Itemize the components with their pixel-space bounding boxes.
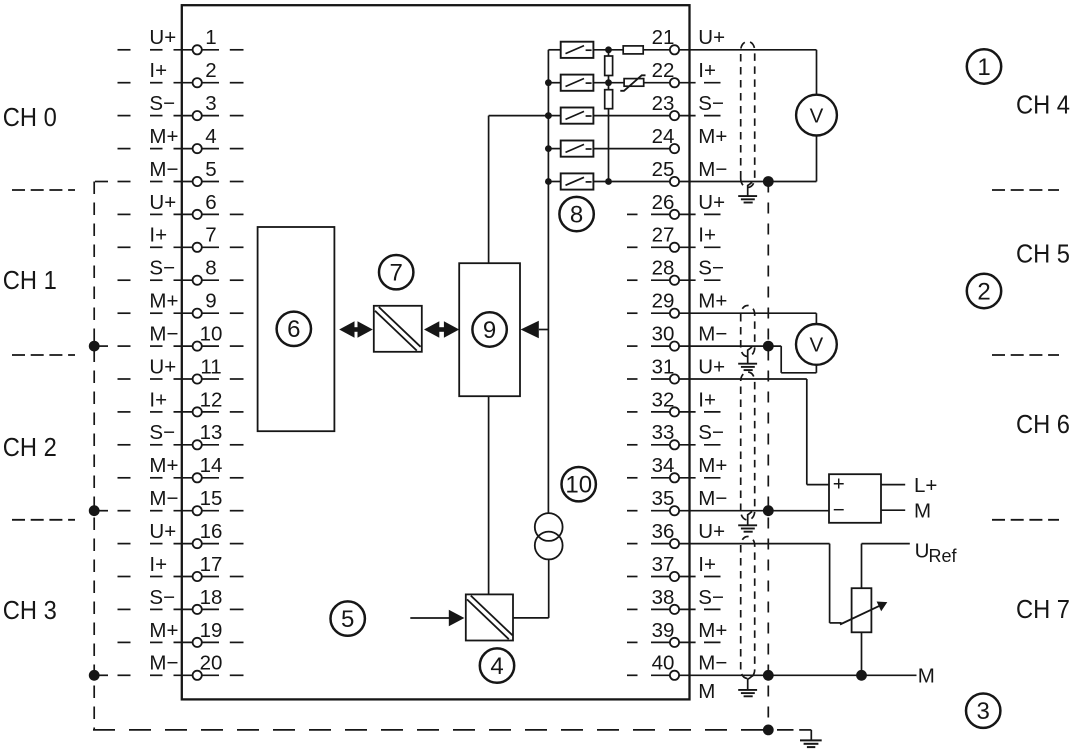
svg-text:14: 14 — [200, 454, 223, 477]
svg-text:M−: M− — [698, 652, 727, 675]
svg-text:36: 36 — [652, 520, 675, 543]
svg-text:6: 6 — [287, 316, 300, 343]
svg-text:7: 7 — [390, 260, 403, 287]
svg-text:S−: S− — [149, 92, 175, 115]
svg-text:10: 10 — [565, 472, 592, 499]
svg-text:5: 5 — [341, 606, 354, 633]
svg-text:M+: M+ — [698, 619, 727, 642]
svg-text:8: 8 — [205, 257, 216, 280]
svg-text:32: 32 — [652, 388, 675, 411]
svg-text:5: 5 — [205, 158, 216, 181]
svg-text:CH 2: CH 2 — [3, 432, 57, 462]
svg-text:27: 27 — [652, 224, 675, 247]
svg-text:CH 5: CH 5 — [1016, 239, 1070, 269]
svg-text:22: 22 — [652, 59, 675, 82]
svg-text:M−: M− — [698, 323, 727, 346]
svg-text:2: 2 — [977, 278, 990, 305]
svg-text:12: 12 — [200, 388, 223, 411]
svg-text:I+: I+ — [698, 224, 716, 247]
svg-text:6: 6 — [205, 191, 216, 214]
svg-text:U+: U+ — [149, 191, 176, 214]
svg-text:16: 16 — [200, 520, 223, 543]
svg-text:I+: I+ — [698, 59, 716, 82]
svg-text:M+: M+ — [698, 454, 727, 477]
svg-text:11: 11 — [200, 355, 221, 378]
svg-text:1: 1 — [977, 54, 990, 81]
svg-text:13: 13 — [200, 421, 223, 444]
svg-text:U: U — [915, 539, 930, 562]
svg-text:26: 26 — [652, 191, 675, 214]
svg-text:29: 29 — [652, 290, 675, 313]
svg-text:8: 8 — [570, 202, 583, 229]
svg-text:21: 21 — [652, 26, 675, 49]
svg-text:CH 0: CH 0 — [3, 102, 57, 132]
svg-text:15: 15 — [200, 487, 223, 510]
svg-text:M+: M+ — [698, 290, 727, 313]
svg-text:31: 31 — [652, 355, 675, 378]
svg-text:Ref: Ref — [929, 546, 958, 566]
svg-text:1: 1 — [205, 26, 216, 49]
svg-text:2: 2 — [205, 59, 216, 82]
svg-text:S−: S− — [149, 586, 175, 609]
svg-text:37: 37 — [652, 553, 675, 576]
svg-text:30: 30 — [652, 323, 675, 346]
svg-text:S−: S− — [698, 257, 724, 280]
svg-text:I+: I+ — [149, 553, 167, 576]
svg-text:4: 4 — [490, 653, 503, 680]
svg-text:M: M — [918, 665, 935, 688]
svg-text:M−: M− — [149, 323, 178, 346]
svg-text:M+: M+ — [149, 125, 178, 148]
svg-text:19: 19 — [200, 619, 223, 642]
svg-text:9: 9 — [205, 290, 216, 313]
svg-text:+: + — [833, 473, 845, 496]
svg-text:CH 4: CH 4 — [1016, 90, 1070, 120]
svg-text:I+: I+ — [149, 224, 167, 247]
svg-text:L+: L+ — [914, 474, 937, 497]
svg-text:V: V — [810, 104, 824, 127]
svg-text:7: 7 — [205, 224, 216, 247]
svg-text:17: 17 — [200, 553, 223, 576]
svg-text:U+: U+ — [698, 520, 725, 543]
svg-text:38: 38 — [652, 586, 675, 609]
svg-text:CH 3: CH 3 — [3, 595, 57, 625]
svg-text:34: 34 — [652, 454, 675, 477]
svg-text:CH 7: CH 7 — [1016, 594, 1070, 624]
svg-text:39: 39 — [652, 619, 675, 642]
svg-text:9: 9 — [483, 317, 496, 344]
svg-text:28: 28 — [652, 257, 675, 280]
svg-text:23: 23 — [652, 92, 675, 115]
svg-text:40: 40 — [652, 652, 675, 675]
svg-text:M: M — [698, 680, 715, 703]
svg-text:M−: M− — [149, 487, 178, 510]
svg-text:CH 6: CH 6 — [1016, 409, 1070, 439]
svg-text:M+: M+ — [149, 619, 178, 642]
svg-text:33: 33 — [652, 421, 675, 444]
svg-text:M−: M− — [149, 652, 178, 675]
svg-text:U+: U+ — [149, 26, 176, 49]
svg-text:S−: S− — [149, 421, 175, 444]
svg-text:18: 18 — [200, 586, 223, 609]
svg-text:S−: S− — [698, 586, 724, 609]
svg-text:S−: S− — [698, 421, 724, 444]
svg-text:M+: M+ — [149, 290, 178, 313]
svg-text:S−: S− — [149, 257, 175, 280]
svg-text:20: 20 — [200, 652, 223, 675]
svg-text:U+: U+ — [149, 355, 176, 378]
svg-text:U+: U+ — [149, 520, 176, 543]
svg-text:M−: M− — [698, 487, 727, 510]
svg-text:S−: S− — [698, 92, 724, 115]
svg-text:I+: I+ — [698, 553, 716, 576]
svg-text:3: 3 — [977, 698, 990, 725]
svg-text:24: 24 — [652, 125, 675, 148]
svg-text:M: M — [914, 500, 931, 523]
svg-text:4: 4 — [205, 125, 216, 148]
svg-text:25: 25 — [652, 158, 675, 181]
svg-text:M−: M− — [698, 158, 727, 181]
svg-text:−: − — [833, 498, 845, 521]
svg-text:U+: U+ — [698, 191, 725, 214]
svg-text:3: 3 — [205, 92, 216, 115]
svg-text:I+: I+ — [698, 388, 716, 411]
svg-text:M−: M− — [149, 158, 178, 181]
svg-text:CH 1: CH 1 — [3, 265, 57, 295]
svg-text:M+: M+ — [149, 454, 178, 477]
svg-text:V: V — [810, 334, 824, 357]
svg-text:35: 35 — [652, 487, 675, 510]
svg-text:10: 10 — [200, 323, 223, 346]
svg-text:I+: I+ — [149, 388, 167, 411]
svg-text:I+: I+ — [149, 59, 167, 82]
svg-text:U+: U+ — [698, 355, 725, 378]
svg-text:U+: U+ — [698, 26, 725, 49]
svg-text:M+: M+ — [698, 125, 727, 148]
